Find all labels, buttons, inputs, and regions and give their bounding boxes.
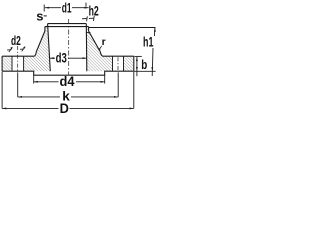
- svg-text:d1: d1: [62, 1, 72, 16]
- left bolt hole wall left: [11, 56, 13, 71]
- flange body section (hatched, between left bolt hole and bore): [24, 56, 51, 71]
- dimension b vertical line with arrows: [136, 57, 138, 76]
- dimension h1: top extension line: [89, 27, 156, 29]
- flange top face right: [103, 55, 134, 57]
- dimension h2 marks: [82, 3, 94, 33]
- neck end outer edge line: [45, 26, 89, 28]
- dimension h1/b bottom extension line: [134, 70, 156, 72]
- flange body section (hatched, between bore and right bolt hole): [87, 56, 113, 71]
- dimension k: extension legs: [18, 72, 119, 97]
- svg-text:d4: d4: [60, 74, 75, 89]
- svg-text:s: s: [36, 9, 43, 24]
- right bolt hole wall right: [123, 56, 125, 71]
- neck end inner edge line: [48, 23, 87, 25]
- flange body section (hatched, right outer piece): [124, 56, 134, 71]
- svg-text:h2: h2: [89, 3, 99, 18]
- dimension d3 line right segment with arrow: [68, 57, 87, 59]
- left bolt hole centerline: [17, 46, 19, 71]
- dimension d4 line: [34, 81, 59, 83]
- dimension D line: [2, 107, 58, 109]
- dimension d1 line right segment: [72, 7, 89, 9]
- right bolt hole wall left: [112, 56, 114, 71]
- dimension b: top extension line: [135, 55, 142, 57]
- left bolt hole wall right: [23, 56, 25, 71]
- svg-text:d2: d2: [11, 33, 21, 48]
- dimension d4: extension legs: [34, 75, 105, 83]
- flange right edge: [133, 56, 135, 71]
- h2 lower extension tick: [86, 32, 91, 34]
- svg-text:b: b: [141, 57, 147, 72]
- flange bottom + raised face step: [2, 71, 134, 75]
- hub / neck wall right (hatched taper section): [86, 24, 103, 57]
- flange top face left: [2, 55, 34, 57]
- center axis line: [68, 19, 70, 75]
- svg-text:D: D: [60, 101, 70, 116]
- dimension d1 extension tick left: [43, 5, 45, 12]
- dimension d3 line left segment with arrow: [50, 57, 55, 59]
- svg-text:d3: d3: [56, 51, 68, 66]
- dimension d2 line + oblique ticks: [7, 47, 25, 52]
- dimension k line: [18, 96, 60, 98]
- bore wall left: [48, 24, 51, 72]
- dimension d1 line left segment: [45, 7, 61, 9]
- flange body section (hatched ring, left outer piece): [2, 56, 12, 71]
- dimension D: extension legs: [2, 72, 134, 109]
- flange left edge: [1, 56, 3, 71]
- dimension d1 arrow left: [45, 7, 49, 9]
- dimension d1 arrow right: [84, 7, 88, 9]
- bore wall right: [85, 24, 88, 72]
- neck outer wall + taper left: [34, 27, 45, 57]
- hub / neck wall left (hatched taper section): [34, 24, 50, 57]
- neck outer wall + taper right: [89, 27, 103, 57]
- dimension h1 vertical line: [152, 28, 155, 77]
- svg-text:r: r: [102, 36, 106, 48]
- right bolt hole centerline: [117, 57, 119, 71]
- svg-text:h1: h1: [143, 35, 154, 50]
